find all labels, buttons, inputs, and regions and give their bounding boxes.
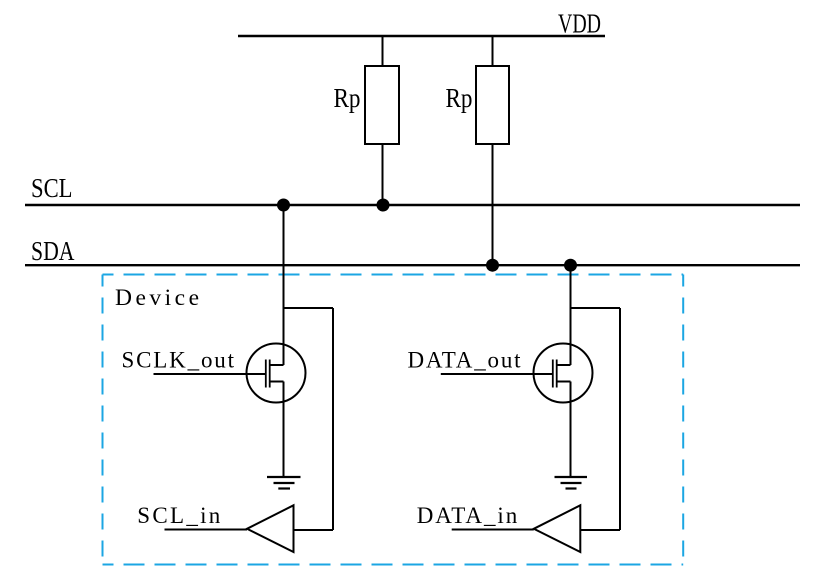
- wire R2 to SDA: [492, 144, 494, 265]
- wire VDD rail: [238, 35, 605, 37]
- net SDA bus line: [25, 264, 800, 266]
- junction dot SCL / R1: [377, 199, 390, 212]
- transistor Q2 gate bar (outer): [552, 360, 554, 388]
- svg-text:VDD: VDD: [558, 9, 601, 39]
- wire feedback vertical to buffer U2: [619, 308, 621, 530]
- wire Q1 source to ground: [283, 382, 285, 478]
- device boundary box (dashed): [103, 275, 684, 565]
- ground symbol (Q1 source): [267, 477, 301, 489]
- wire SCL down to Q1 drain: [283, 205, 285, 365]
- net SCL bus line: [25, 204, 800, 206]
- wire Q2 source to ground: [570, 382, 572, 478]
- svg-text:SDA: SDA: [31, 236, 75, 266]
- wire feedback vertical to buffer U1: [332, 308, 334, 530]
- transistor Q2 body circle: [534, 344, 593, 403]
- wire R1 to SCL: [382, 144, 384, 205]
- transistor Q1 gate bar (outer): [265, 360, 267, 388]
- wire VDD to R1: [382, 36, 384, 66]
- wire Q2 gate lead: [441, 373, 553, 375]
- wire Q1 drain stub: [270, 364, 284, 366]
- wire feedback to U2 input: [580, 529, 620, 531]
- wire Q2 source stub: [557, 381, 571, 383]
- wire Q1 source stub: [270, 381, 284, 383]
- svg-text:SCL: SCL: [31, 173, 73, 203]
- wire Q2 drain stub: [557, 364, 571, 366]
- wire SDA down to Q2 drain: [570, 265, 572, 365]
- junction dot SDA / R2: [486, 259, 499, 272]
- svg-text:SCL_in: SCL_in: [137, 503, 221, 528]
- resistor R1: [365, 66, 399, 144]
- junction dot SDA / Q2 drain: [564, 259, 577, 272]
- wire Q2 drain feedback horizontal: [571, 307, 621, 309]
- transistor Q1 body circle: [247, 344, 306, 403]
- buffer U2 (SDA input) triangle: [534, 505, 581, 552]
- wire U1 output lead: [165, 529, 248, 531]
- svg-text:SCLK_out: SCLK_out: [122, 348, 235, 373]
- wire Q1 drain feedback horizontal: [284, 307, 334, 309]
- transistor Q1 channel bar (inner): [269, 360, 271, 388]
- wire Q1 gate lead: [154, 373, 266, 375]
- svg-text:Rp: Rp: [446, 83, 473, 113]
- junction dot SCL / Q1 drain: [277, 199, 290, 212]
- ground symbol (Q2 source): [555, 477, 588, 489]
- transistor Q2 channel bar (inner): [556, 360, 558, 388]
- wire U2 output lead: [452, 529, 534, 531]
- resistor R2: [476, 66, 509, 144]
- wire feedback to U1 input: [294, 529, 334, 531]
- buffer U1 (SCL input) triangle: [247, 505, 294, 552]
- svg-text:Rp: Rp: [334, 83, 361, 113]
- wire VDD to R2: [492, 36, 494, 66]
- svg-text:DATA_in: DATA_in: [417, 503, 518, 528]
